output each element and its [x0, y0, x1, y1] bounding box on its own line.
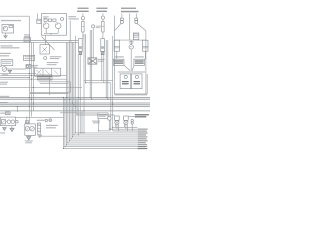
gauge G6b — [49, 119, 52, 122]
pump P5b — [11, 120, 15, 124]
wire long row y99.2 — [0, 98, 150, 100]
wire G4 stem — [130, 40, 132, 71]
brake unit enclosure — [1, 117, 16, 126]
pump P1 — [3, 27, 7, 31]
tank T2 — [8, 70, 12, 73]
wire feed x112.7 — [112, 36, 114, 131]
wire in brake unit — [6, 121, 8, 123]
power unit enclosure U1 — [42, 14, 67, 36]
wire gauge stem — [131, 124, 133, 131]
tank T1 — [4, 36, 7, 38]
wire row y79.2 — [0, 78, 67, 80]
wire corner y130.9 — [99, 130, 111, 132]
wire brake drop — [11, 126, 13, 129]
wire route y83.6 — [30, 84, 68, 94]
label inside U1 — [43, 16, 49, 18]
wire bus x66.5 — [66, 42, 68, 144]
wire drop x45.3 — [44, 35, 46, 45]
label PUMP TO N.M. — [1, 20, 21, 21]
wire ladder row y136.9 — [73, 136, 138, 138]
wire G3 drop — [92, 28, 94, 58]
wire brake to bus y117.6 — [16, 117, 64, 119]
wire to legend — [128, 116, 135, 118]
wire bus x71.0 — [70, 41, 72, 139]
tank T4 — [27, 137, 31, 140]
pump P7 — [30, 127, 34, 131]
wire right rail right — [145, 31, 147, 94]
valve V4 — [37, 123, 40, 131]
wire ladder row y132.9 — [75, 132, 137, 134]
gauge G2 — [61, 18, 64, 21]
motor M1 — [88, 58, 97, 64]
wire right rail left — [113, 16, 115, 95]
label mid note — [47, 62, 59, 65]
wire from label down — [69, 21, 71, 41]
label box L1 — [24, 34, 31, 42]
wire feed x91.7 — [91, 30, 93, 99]
tank T3 — [10, 128, 14, 131]
label right of U1 — [69, 16, 79, 19]
check valve CV1 — [120, 14, 123, 24]
wire pump drop — [5, 33, 7, 36]
wire SB-R diagonal — [132, 65, 134, 71]
wire long row y110.9 — [0, 110, 150, 112]
wire vertical bus line 1 — [28, 16, 30, 116]
label SV2 — [96, 8, 107, 12]
label tank — [0, 132, 5, 133]
wire ladder row y127.3 — [113, 126, 138, 128]
wire supply line top-left — [0, 15, 29, 17]
wire feed x90.2 — [89, 30, 91, 97]
wire leader diagonal — [42, 37, 55, 51]
legend text block — [138, 129, 148, 150]
valve block V1 — [1, 60, 13, 66]
solenoid block SB-R — [134, 59, 145, 65]
wire pump outlets — [44, 29, 58, 36]
wire drop x84.0 — [83, 34, 85, 133]
check valve CV2 — [135, 14, 138, 24]
wire route y80.7 — [84, 80, 113, 82]
wire bus x72.5 — [72, 42, 74, 136]
wire CV1 diagonal — [114, 24, 121, 31]
label M1 — [98, 59, 105, 62]
legend title — [135, 114, 149, 117]
solenoid block SB-L — [113, 59, 124, 65]
valve in brake unit — [2, 120, 6, 124]
wire SB-L diagonal — [124, 65, 130, 71]
pump P3 — [55, 23, 61, 29]
wire acc drops — [99, 119, 110, 131]
label bottom-left — [0, 112, 10, 115]
solenoid valve SV2 — [101, 13, 104, 32]
gauge G7 — [108, 117, 112, 121]
pump P4 — [2, 67, 7, 72]
label return line — [0, 53, 11, 57]
gauge G6 — [45, 119, 47, 121]
wire long row y106.5 — [0, 106, 150, 108]
wire manifold top — [118, 71, 145, 73]
wire bus x64.9 — [64, 99, 66, 147]
wire SV2 stem — [102, 19, 104, 39]
label SV1 — [77, 8, 89, 12]
wire manifold bottom — [114, 93, 147, 96]
pump P5 — [7, 120, 11, 124]
wire vertical bus line 2 — [30, 42, 32, 116]
gauge box G1 — [37, 14, 41, 24]
wire pump P4 link — [0, 67, 26, 69]
wire long row y103 — [0, 102, 150, 104]
wire ladder row y146.7 — [65, 146, 148, 148]
wire drop x85.5 — [85, 34, 87, 83]
wire long row y104.8 — [0, 104, 150, 106]
wire long row y97.4 — [0, 96, 150, 98]
unload valve circle — [44, 57, 47, 60]
label main pump note — [1, 45, 20, 48]
wire drop x49.7 — [49, 75, 51, 95]
valve V4 lower — [38, 131, 40, 135]
filter in steer unit — [25, 121, 28, 123]
label drain line — [0, 102, 8, 103]
tank T3b — [3, 128, 7, 131]
wire route y82.8 — [86, 82, 111, 84]
wire vertical bus line 3 — [32, 42, 34, 111]
manifold cell A — [120, 74, 131, 89]
wire cyl stems — [117, 51, 146, 59]
wire V4 out — [39, 135, 67, 136]
wire leader x129.7 — [129, 14, 131, 41]
wire bus x67.9 — [67, 42, 69, 142]
valve block V2 — [24, 55, 35, 60]
wire ladder row y142.9 — [68, 142, 137, 144]
manifold cell B — [131, 74, 142, 89]
wire row y77.5 — [0, 77, 30, 79]
wire ladder row y140.9 — [70, 140, 138, 142]
wire row y112.8 — [60, 112, 76, 114]
filter bank — [44, 19, 56, 21]
wire CYL-C2 legs — [102, 55, 104, 83]
wire row y73.6 — [0, 73, 36, 75]
pump P2 — [43, 23, 49, 29]
relief valve box — [133, 33, 139, 40]
directional valve DV1 — [40, 45, 49, 54]
gauge G4 center — [129, 45, 133, 49]
wire drop x110.8 — [110, 83, 112, 129]
label steering line — [37, 120, 45, 121]
wire drop x82.0 — [81, 111, 83, 133]
wire bus x69.6 — [69, 41, 71, 141]
label cyl R — [135, 56, 144, 57]
motor valve MV2 — [124, 116, 129, 125]
wire ladder row y129.2 — [109, 128, 137, 130]
cylinder CYL-R — [143, 40, 149, 51]
tank T5 — [38, 135, 42, 137]
wire CV2 diagonal — [137, 24, 146, 31]
wire feed x107.8 — [107, 40, 109, 99]
label to cooler — [0, 82, 8, 85]
gauge G5 — [16, 120, 19, 123]
label G3 — [96, 26, 101, 28]
wire ladder row y148.4 — [64, 147, 148, 149]
wire bus x75.3 — [74, 36, 76, 133]
cylinder CYL-C2 — [101, 39, 105, 55]
label under acc — [92, 121, 100, 124]
wire right rail inner — [146, 74, 148, 94]
label pressure line — [0, 96, 9, 97]
pump unit P1 enclosure — [2, 25, 14, 34]
cylinder CYL-C1 — [79, 39, 83, 55]
wire ladder row y134.9 — [74, 134, 137, 136]
label small left — [2, 74, 8, 75]
label D block — [121, 8, 139, 13]
label unload vlv — [50, 56, 62, 59]
wire row y75.4 — [0, 74, 67, 76]
wire row y87.4 — [0, 86, 82, 88]
wire ladder row y138.9 — [71, 138, 137, 140]
cylinder CYL-L — [114, 40, 120, 51]
wire MV legs — [115, 125, 127, 131]
wire bus x63.5 — [63, 97, 65, 148]
accumulator box — [98, 113, 108, 119]
steer unit enclosure — [25, 124, 36, 135]
label under steer — [25, 140, 33, 143]
wire ladder row y131.0 — [113, 130, 138, 132]
label above G4 — [129, 41, 133, 44]
pump P6 — [25, 127, 29, 131]
wire steer drop — [28, 135, 30, 136]
wire ladder row y144.9 — [67, 144, 138, 146]
filter F1 — [9, 26, 12, 28]
valve bank VB1 — [35, 68, 61, 76]
gauge G3 — [92, 25, 95, 28]
wire route y81.8 — [30, 82, 70, 93]
wire feed x106.2 — [105, 40, 107, 97]
wire cross rail y40.1 — [114, 39, 145, 41]
motor valve MV1 — [115, 116, 120, 125]
wire stub x17.3 — [16, 107, 18, 113]
wire bus drops bl — [27, 116, 30, 124]
wire rows to acc — [76, 113, 115, 115]
label block w box — [36, 74, 52, 80]
label V4 — [46, 125, 58, 129]
gauge pair — [131, 119, 133, 124]
wire CYL-C1 legs — [78, 55, 80, 135]
wire horizontal pair left — [0, 41, 78, 43]
wire bus x73.9 — [73, 42, 75, 134]
wire SV1 stem — [82, 20, 84, 39]
valve block V3 — [26, 65, 38, 69]
junction dots — [17, 73, 113, 149]
solenoid valve SV1 — [81, 13, 84, 32]
label cyl L — [115, 56, 124, 57]
wire bus x77.0 — [76, 99, 78, 115]
